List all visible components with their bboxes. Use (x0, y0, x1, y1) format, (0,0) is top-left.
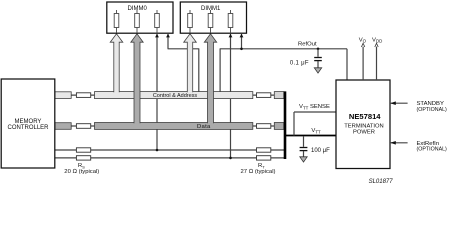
svg-text:DIMM0: DIMM0 (128, 6, 148, 12)
resistor: Control&Address termination (257, 93, 271, 98)
ground symbol below 0.1uF (314, 68, 321, 73)
bus arrow: DIMM1 Data riser (204, 34, 216, 123)
stub: controller Control&Address pad (55, 92, 71, 99)
wire: VTT SENSE vertical connector (293, 112, 295, 136)
memory controller box (1, 79, 55, 168)
wire: controller Data feed (55, 125, 95, 127)
DIMM0 resistor 2 (135, 10, 140, 33)
DIMM1 resistor 1 (188, 10, 193, 33)
svg-text:POWER: POWER (353, 129, 375, 135)
wire: controller Control&Address feed (55, 94, 95, 96)
pin arrowhead into DIMM0 Vref (166, 34, 170, 38)
resistor: Data termination (257, 124, 271, 129)
DIMM1 box (180, 2, 246, 33)
wire: RefOut horizontal segment A (168, 48, 199, 50)
svg-text:MEMORY: MEMORY (15, 119, 42, 125)
pin arrowhead into DIMM1 (line 1) (229, 34, 233, 38)
STANDBY pin wire (390, 102, 408, 104)
resistor: series in Control&Address feed (76, 93, 90, 98)
wire: riser from Control bus to RefOut segment B (219, 48, 221, 91)
stub: controller Data pad (55, 123, 71, 130)
svg-text:VTT SENSE: VTT SENSE (299, 104, 330, 110)
DIMM1 resistor 3 (228, 10, 233, 33)
svg-text:SL01877: SL01877 (369, 179, 394, 185)
wire: VTT SENSE horizontal into NE57814 (294, 111, 336, 113)
bus arrow: DIMM0 Data riser (131, 34, 143, 123)
ExtRefIn pin wire (390, 142, 408, 144)
svg-text:VO: VO (359, 37, 367, 43)
resistor RT lower (257, 156, 271, 160)
capacitor C2 100uF plates (300, 147, 308, 149)
VO pin wire and arrow (362, 47, 364, 80)
VDD pin wire and arrow (376, 47, 378, 80)
STANDBY arrowhead (390, 101, 396, 105)
svg-text:NE57814: NE57814 (349, 112, 381, 121)
wire: DIMM0 pin3 vertical down to upper RS/RT rail (156, 34, 158, 150)
ExtRefIn arrowhead (390, 141, 396, 145)
junction dot lower rail / DIMM1 line (229, 157, 232, 160)
svg-text:(OPTIONAL): (OPTIONAL) (417, 147, 448, 153)
wire: drop from segment A into Control bus (198, 48, 200, 91)
capacitor C1 plates (314, 57, 322, 59)
wire: DIMM1 pin3 vertical down to lower RS/RT rail (230, 34, 232, 158)
capacitor C1 0.1uF stem (317, 49, 319, 57)
wire: RefOut horizontal segment B to NE57814 (220, 48, 347, 50)
junction dot upper rail / DIMM0 line (156, 149, 159, 152)
svg-text:VDD: VDD (372, 37, 382, 43)
svg-text:20 Ω (typical): 20 Ω (typical) (64, 169, 99, 175)
svg-text:100 μF: 100 μF (311, 148, 330, 154)
resistor: series in Data feed (76, 124, 90, 129)
bus: Control & Address (95, 92, 253, 99)
resistor RT upper (257, 148, 271, 152)
capacitor C1 lower stem (317, 61, 319, 68)
pad: Control bus to rail (274, 92, 284, 99)
capacitor C2 lower stem (303, 151, 305, 157)
svg-text:CONTROLLER: CONTROLLER (7, 125, 49, 131)
wire: Data bus to VTT rail (253, 125, 284, 127)
pin arrowhead into DIMM0 (line 1) (155, 34, 159, 38)
bus arrow: DIMM1 Control&Address riser (184, 34, 197, 93)
wire: Control bus to VTT rail (253, 94, 284, 96)
pad: Data bus to rail (274, 123, 284, 130)
resistor RS lower (76, 156, 90, 160)
resistor RS upper (76, 148, 90, 152)
wire: upper series line controller to VTT rail (55, 149, 285, 151)
DIMM0 resistor 3 (155, 10, 160, 33)
NE57814 box (336, 80, 390, 169)
svg-text:Control & Address: Control & Address (153, 93, 198, 99)
pin arrowhead into DIMM1 Vref (240, 34, 244, 38)
svg-text:RefOut: RefOut (298, 41, 317, 47)
VTT line (thick horizontal) (285, 135, 336, 137)
ground symbol below 100uF (300, 157, 307, 162)
wire: lower series line controller to VTT rail (55, 157, 285, 159)
svg-text:VTT: VTT (311, 128, 321, 134)
svg-text:0.1 μF: 0.1 μF (290, 61, 309, 67)
junction dot RefOut/cap (317, 48, 320, 51)
DIMM1 resistor 2 (208, 10, 213, 33)
wire: DIMM0 Vref pin vertical (167, 34, 169, 49)
wire: DIMM1 Vref pin vertical (241, 34, 243, 49)
svg-text:27 Ω (typical): 27 Ω (typical) (241, 169, 276, 175)
DIMM0 resistor 1 (114, 10, 119, 33)
DIMM0 box (107, 2, 173, 33)
wire: RefOut corner down into NE57814 top (346, 49, 348, 80)
svg-text:Data: Data (197, 124, 211, 130)
bus: Data (95, 123, 253, 130)
VTT rail (thick vertical) (284, 91, 287, 159)
capacitor C2 100uF stem (303, 136, 305, 147)
svg-text:DIMM1: DIMM1 (201, 6, 221, 12)
bus arrow: DIMM0 Control&Address riser (110, 34, 123, 93)
svg-text:(OPTIONAL): (OPTIONAL) (417, 107, 448, 113)
junction dot RefOut/DIMM1 (240, 48, 243, 51)
